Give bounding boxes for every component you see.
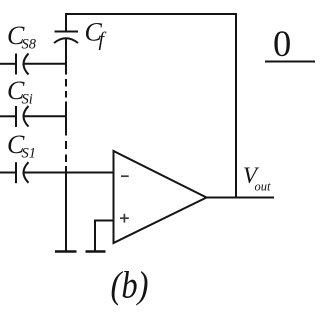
svg-text:S8: S8: [22, 37, 37, 53]
svg-text:Si: Si: [22, 92, 33, 108]
svg-text:(b): (b): [111, 265, 149, 307]
svg-text:out: out: [255, 180, 272, 194]
svg-text:0: 0: [273, 23, 291, 64]
svg-text:S1: S1: [22, 146, 37, 162]
